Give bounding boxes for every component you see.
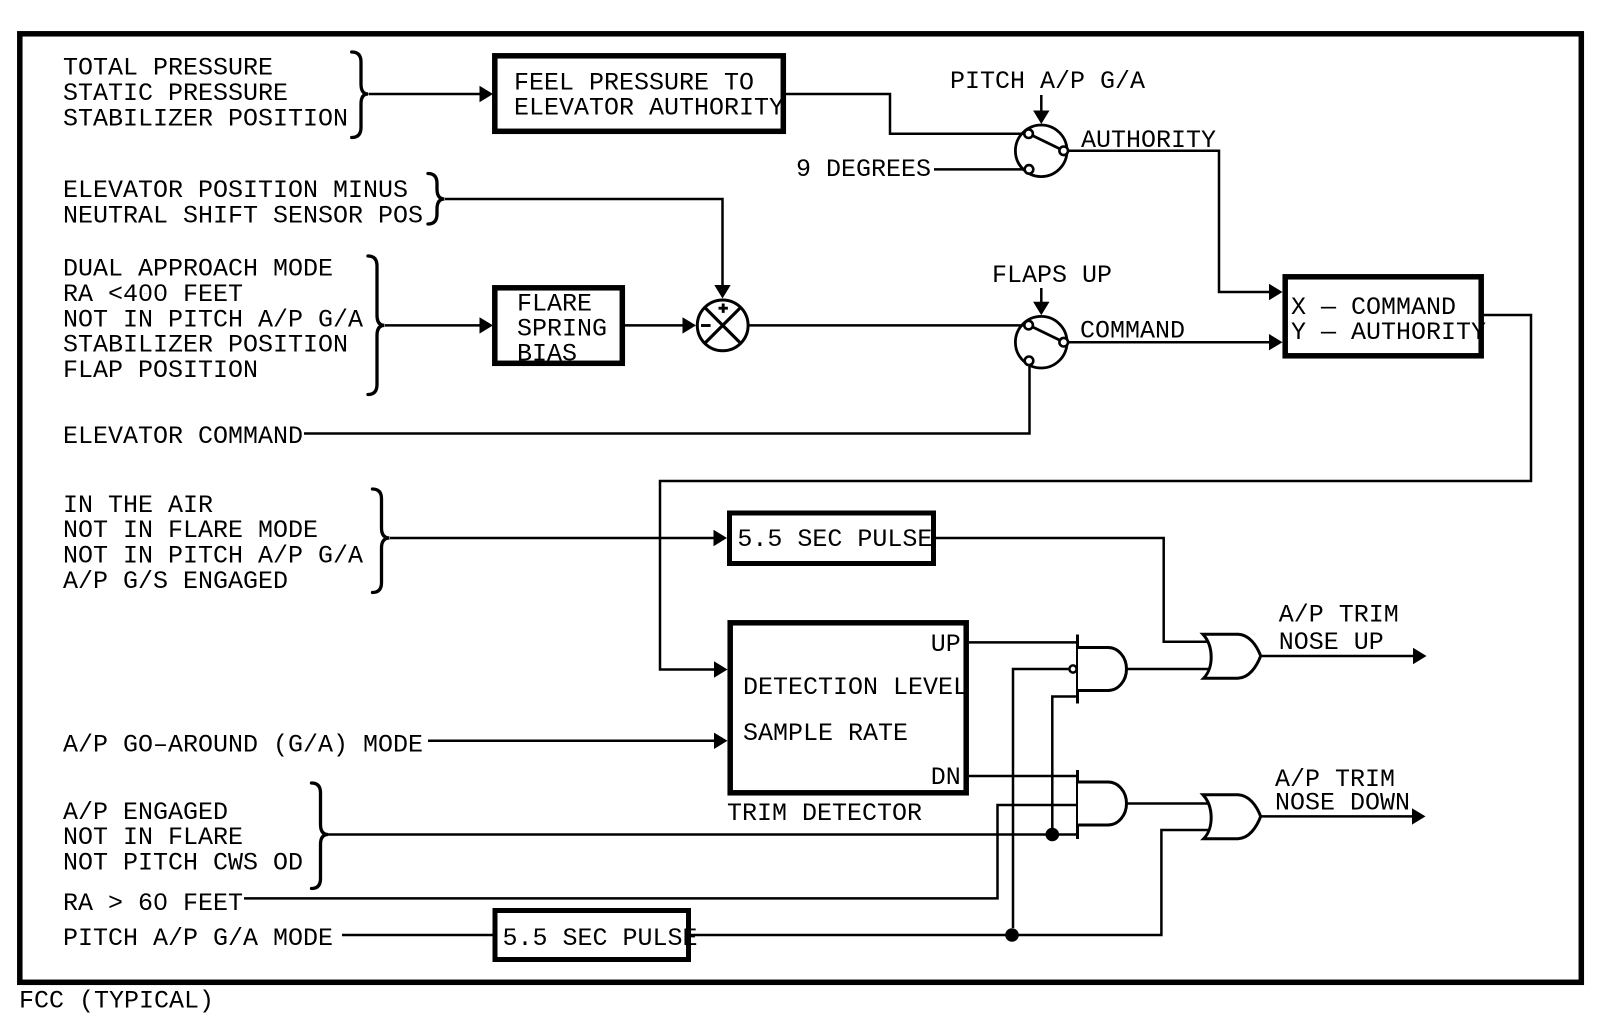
brace for flare spring bias group: [368, 256, 385, 395]
switch S1 authority select: [1015, 125, 1067, 177]
block U5 TRIM DETECTOR (detection level / sample rate): [730, 623, 966, 793]
svg-text:NOSE DOWN: NOSE DOWN: [1275, 789, 1410, 818]
wire S1 AUTHORITY output to U3 X input: [1068, 151, 1270, 292]
junction dot A/P-engaged branch: [1046, 828, 1060, 842]
block U6 5.5 SEC PULSE (nose down path): [495, 911, 689, 960]
block U4 5.5 SEC PULSE (nose up path): [730, 513, 934, 564]
svg-text:A/P G/S ENGAGED: A/P G/S ENGAGED: [63, 567, 288, 596]
node input group: total/static pressure, stabilizer position: [63, 54, 348, 134]
wire U6 output to OR2 bottom input: [691, 830, 1209, 935]
svg-text:ELEVATOR COMMAND: ELEVATOR COMMAND: [63, 422, 303, 451]
node input group: in the air / not in flare mode / not in pitch A/P G/A / A/P G/S engaged: [63, 491, 363, 596]
summing junction SJ1 (+/-): [697, 300, 748, 351]
and-gate AND2 input bar: [1076, 770, 1079, 839]
svg-text:STABILIZER POSITION: STABILIZER POSITION: [63, 104, 348, 133]
switch S2 command select: [1015, 316, 1067, 368]
block U2 FLARE SPRING BIAS: [495, 288, 623, 364]
svg-text:A/P TRIM: A/P TRIM: [1279, 601, 1399, 630]
wire U5 UP output to AND1: [969, 641, 1078, 644]
svg-text:FCC (TYPICAL): FCC (TYPICAL): [19, 987, 214, 1016]
or-gate OR1: [1203, 634, 1261, 678]
junction dot pitch-G/A-pulse branch: [1005, 928, 1019, 942]
wire A/P-engaged branch to AND1 third input: [1052, 697, 1077, 829]
svg-text:FLAPS UP: FLAPS UP: [992, 261, 1112, 290]
wire OR2 output A/P TRIM NOSE DOWN: [1261, 815, 1413, 818]
svg-text:NOSE UP: NOSE UP: [1279, 628, 1384, 657]
svg-text:Y — AUTHORITY: Y — AUTHORITY: [1291, 318, 1486, 347]
svg-text:PITCH A/P G/A MODE: PITCH A/P G/A MODE: [63, 924, 333, 953]
svg-text:UP: UP: [931, 630, 961, 659]
wire U4 output to OR1: [936, 538, 1209, 642]
node input group: A/P engaged / not in flare / not pitch CWS OD: [63, 798, 303, 878]
svg-text:A/P GO–AROUND (G/A) MODE: A/P GO–AROUND (G/A) MODE: [63, 731, 423, 760]
svg-text:NEUTRAL SHIFT SENSOR POS: NEUTRAL SHIFT SENSOR POS: [63, 202, 423, 231]
svg-text:DN: DN: [931, 763, 961, 792]
svg-text:5.5 SEC PULSE: 5.5 SEC PULSE: [737, 525, 932, 554]
brace for elevator position group: [428, 174, 445, 225]
wire U2 output to summing junction: [625, 324, 684, 327]
svg-text:5.5 SEC PULSE: 5.5 SEC PULSE: [503, 924, 698, 953]
wire U3 output to U5 input: [660, 315, 1531, 670]
inverter bubble on AND1 input: [1069, 665, 1076, 672]
node input group: elevator position minus neutral shift sensor pos: [63, 176, 423, 230]
and-gate AND1 input bar: [1076, 635, 1079, 704]
svg-text:RA > 60 FEET: RA > 60 FEET: [63, 889, 243, 918]
svg-text:NOT PITCH CWS OD: NOT PITCH CWS OD: [63, 849, 303, 878]
wire A/P GO-AROUND mode to U5: [428, 740, 715, 743]
wire 9 DEGREES to S1: [934, 168, 1025, 171]
wire OR1 output A/P TRIM NOSE UP: [1261, 655, 1414, 658]
wire pressure-group to U1: [369, 93, 482, 96]
node input group: dual approach mode / RA<400 / not in pitch A/P G/A / stabilizer / flap position: [63, 255, 363, 385]
svg-text:ELEVATOR AUTHORITY: ELEVATOR AUTHORITY: [514, 94, 784, 123]
wire RA>60 to AND2 middle input: [244, 805, 1078, 898]
wire S2 COMMAND output to U3 Y input: [1068, 341, 1270, 344]
wire A/P-engaged group to AND2: [328, 833, 1078, 836]
wire flare group to U2: [385, 324, 481, 327]
brace for 5.5 sec pulse group: [373, 489, 390, 593]
svg-text:PITCH A/P G/A: PITCH A/P G/A: [950, 67, 1145, 96]
svg-text:FLAP POSITION: FLAP POSITION: [63, 356, 258, 385]
brace for pressure group: [352, 52, 368, 138]
wire AND2 output to OR2: [1127, 802, 1210, 805]
wire PITCH A/P G/A arrow into S1: [1040, 95, 1043, 112]
and-gate AND1: [1078, 648, 1127, 691]
wire FLAPS UP arrow into S2: [1040, 288, 1043, 303]
svg-text:DETECTION LEVEL: DETECTION LEVEL: [743, 673, 968, 702]
svg-text:SAMPLE RATE: SAMPLE RATE: [743, 719, 908, 748]
wire summing junction to switch S2: [749, 324, 1024, 327]
wire in-the-air group to U4: [390, 537, 715, 540]
block U3 X/Y authority-command combiner: [1285, 277, 1481, 356]
and-gate AND2: [1078, 782, 1127, 825]
svg-text:9 DEGREES: 9 DEGREES: [796, 155, 931, 184]
wire ELEVATOR COMMAND to S2: [304, 365, 1030, 433]
svg-text:TRIM DETECTOR: TRIM DETECTOR: [727, 799, 922, 828]
wire inverted input from pitch-G/A-pulse line to AND1: [1013, 669, 1069, 928]
wire elevator-position group to summing junction: [445, 199, 723, 286]
svg-text:BIAS: BIAS: [517, 340, 577, 369]
block U1 FEEL PRESSURE TO ELEVATOR AUTHORITY: [495, 56, 784, 132]
wire U1 output to switch S1: [786, 94, 1025, 134]
wire PITCH A/P G/A MODE into U6: [342, 934, 493, 937]
wire U5 DN output to AND2: [969, 775, 1078, 778]
brace for A/P engaged group: [312, 783, 329, 889]
wire AND1 output to OR1: [1127, 668, 1210, 671]
zero glyph dot masks: [143, 290, 147, 294]
or-gate OR2: [1203, 795, 1261, 839]
